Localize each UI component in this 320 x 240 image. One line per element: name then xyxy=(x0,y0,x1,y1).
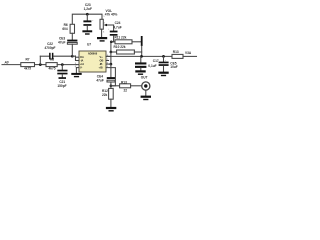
pot ground xyxy=(101,29,103,37)
svg-text:V+: V+ xyxy=(100,55,104,59)
wire A0 input xyxy=(2,64,21,66)
svg-text:4k75: 4k75 xyxy=(24,67,31,71)
pin stubs right xyxy=(106,55,110,57)
svg-text:22: 22 xyxy=(124,88,128,92)
wire to V3A xyxy=(183,55,197,57)
node junction -IB xyxy=(110,63,113,66)
svg-text:AD8606: AD8606 xyxy=(88,52,98,56)
svg-text:2: 2 xyxy=(104,23,106,25)
capacitor C22 xyxy=(39,56,41,64)
svg-text:-IA: -IA xyxy=(80,59,84,63)
capacitor CE3 xyxy=(71,33,73,39)
svg-text:R11 22k: R11 22k xyxy=(115,36,127,40)
svg-text:R13: R13 xyxy=(121,80,127,84)
node junction xyxy=(110,85,113,88)
svg-text:V3A: V3A xyxy=(185,51,192,55)
svg-text:22k: 22k xyxy=(102,93,108,97)
ground xyxy=(158,72,168,74)
node A0 xyxy=(4,61,9,65)
node junction xyxy=(71,55,74,58)
wire V+ rail xyxy=(106,55,172,57)
capacitor C17 / CE5 xyxy=(163,56,165,61)
wire C24/R11 node xyxy=(111,42,114,52)
resistor R13 xyxy=(111,85,120,87)
capacitor CE4 xyxy=(107,77,115,79)
svg-text:R13: R13 xyxy=(173,50,179,54)
svg-text:604: 604 xyxy=(62,27,68,31)
svg-text:4,7uF: 4,7uF xyxy=(113,25,121,29)
svg-text:1,2uF: 1,2uF xyxy=(84,7,92,11)
pin stubs left xyxy=(76,56,79,58)
svg-text:+: + xyxy=(108,28,110,30)
node junction xyxy=(140,55,143,58)
resistor R10 xyxy=(111,51,117,53)
resistor R9 xyxy=(172,54,183,58)
resistor R6 xyxy=(70,24,74,33)
ground xyxy=(145,90,147,95)
wire xyxy=(57,64,76,66)
wire feedback vertical xyxy=(110,52,112,64)
svg-text:4k75: 4k75 xyxy=(48,67,55,71)
ground xyxy=(106,107,116,109)
svg-text:0,1uF: 0,1uF xyxy=(148,64,156,68)
svg-text:3: 3 xyxy=(103,31,105,33)
pot wiper xyxy=(106,24,114,26)
op-amp U7 xyxy=(79,51,106,72)
ground xyxy=(135,70,145,72)
resistor R12 xyxy=(109,88,114,99)
wire +IB xyxy=(106,68,115,86)
svg-text:C17: C17 xyxy=(153,59,159,63)
node junction xyxy=(61,63,64,66)
connector OUT xyxy=(142,82,150,90)
wire vertical tie R11/R10 to rail xyxy=(141,36,143,46)
svg-text:OUT: OUT xyxy=(141,75,148,79)
svg-text:+IA: +IA xyxy=(80,62,84,66)
svg-text:150pF: 150pF xyxy=(57,84,66,88)
svg-text:47uF: 47uF xyxy=(96,78,103,82)
node junction xyxy=(39,63,42,66)
svg-text:V-: V- xyxy=(80,66,83,70)
capacitor (decoupling) xyxy=(140,56,142,62)
ground xyxy=(82,30,92,32)
resistor R7 xyxy=(21,63,35,67)
svg-text:4700pF: 4700pF xyxy=(45,46,56,50)
svg-text:R10 22k: R10 22k xyxy=(114,45,126,49)
resistor R8 xyxy=(46,63,57,67)
svg-text:A0: A0 xyxy=(4,61,9,65)
wire jog to -IA xyxy=(72,56,76,60)
ground xyxy=(59,77,67,79)
ground V- xyxy=(75,68,77,73)
svg-text:47k 40%: 47k 40% xyxy=(105,13,118,17)
svg-text:+: + xyxy=(92,20,94,22)
capacitor C23 xyxy=(86,13,89,16)
svg-text:+IB: +IB xyxy=(99,66,103,70)
svg-text:R7: R7 xyxy=(25,57,29,61)
svg-text:10uF: 10uF xyxy=(170,65,177,69)
svg-text:OB: OB xyxy=(100,59,104,63)
svg-text:OA: OA xyxy=(80,55,84,59)
capacitor C24 xyxy=(113,25,115,31)
svg-text:47uF: 47uF xyxy=(58,40,65,44)
node junction xyxy=(110,51,113,54)
node junction xyxy=(162,55,165,58)
resistor R11 xyxy=(111,41,115,43)
svg-text:U7: U7 xyxy=(87,42,91,46)
capacitor C21 xyxy=(61,65,63,70)
wire top rail xyxy=(72,14,102,24)
wire xyxy=(35,64,47,66)
potentiometer VOL xyxy=(100,19,103,29)
svg-text:-IB: -IB xyxy=(99,62,103,66)
